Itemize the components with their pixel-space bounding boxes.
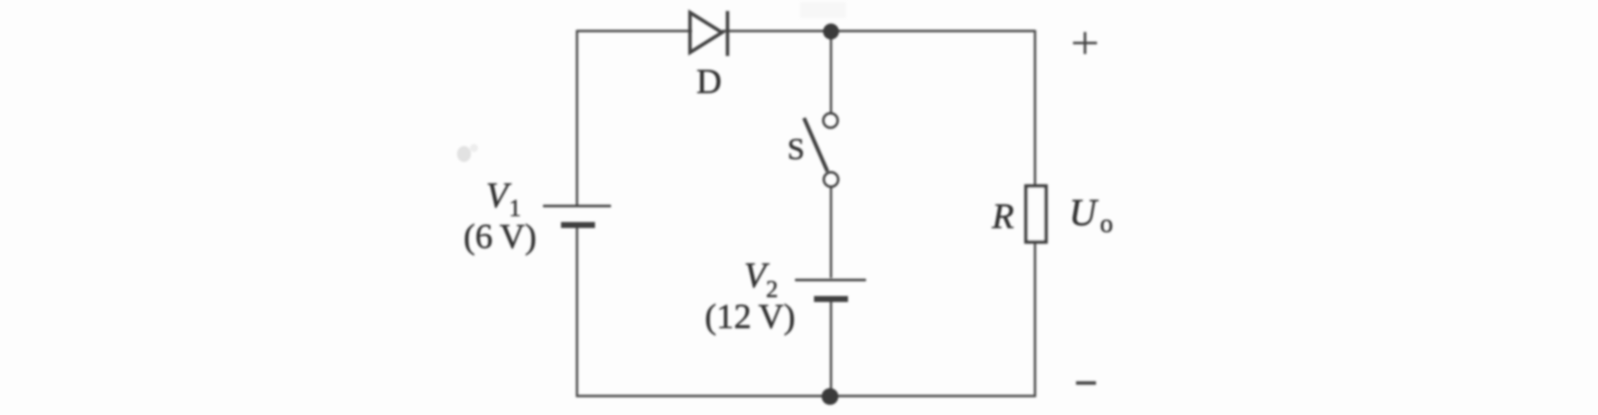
svg-text:(12 V): (12 V) — [705, 297, 796, 336]
plus terminal — [1073, 32, 1097, 54]
wire right upper (+ corner to resistor R) — [1034, 30, 1036, 188]
svg-text:R: R — [991, 196, 1014, 236]
wire left upper (top corner to V1 plate) — [576, 30, 578, 206]
wire right lower (resistor R to - corner) — [1034, 241, 1036, 397]
wire left lower (V1 to bottom corner) — [576, 225, 578, 397]
minus terminal — [1076, 381, 1096, 385]
switch S — [804, 113, 838, 186]
svg-text:o: o — [1100, 209, 1113, 238]
battery V2 — [795, 280, 866, 299]
wire bottom (bottom rail) — [576, 395, 1036, 397]
svg-text:D: D — [696, 62, 721, 101]
wire middle upper (node A to switch S) — [830, 31, 832, 113]
node B (bottom junction dot) — [822, 388, 839, 405]
svg-text:U: U — [1069, 192, 1099, 234]
wire middle lower (battery V2 to bottom node B) — [830, 301, 832, 397]
resistor R — [1026, 186, 1046, 242]
wire top right (diode to node A and + corner) — [722, 30, 1035, 32]
svg-text:S: S — [787, 131, 804, 166]
battery V1 — [543, 206, 611, 225]
wire top left (V1 top to diode) — [577, 30, 692, 32]
diode D — [690, 11, 728, 56]
wire middle (switch S to battery V2) — [830, 187, 832, 278]
node A (top junction dot) — [823, 24, 839, 40]
svg-text:(6 V): (6 V) — [463, 217, 536, 256]
